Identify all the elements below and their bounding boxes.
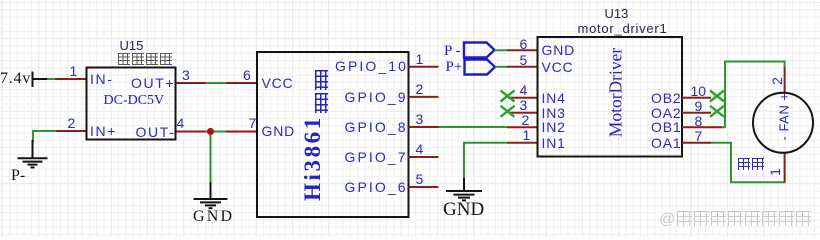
pin name GND U13: [542, 42, 576, 58]
pin number 6 U13: [520, 36, 528, 52]
value DC-DC5V: [104, 93, 165, 109]
pin number 9 U13: [695, 98, 703, 114]
pin name OA1: [651, 135, 681, 151]
pin stub Hi3861 GPIO_7 pin4: [409, 156, 439, 158]
wire IN1 to ground: [464, 143, 507, 178]
pin number 5 GPIO_6: [416, 171, 424, 187]
netflag P+ pentagon: [465, 60, 496, 75]
pin name IN3: [542, 105, 566, 121]
fan motor circle: [753, 93, 813, 153]
pin name GPIO_8: [345, 119, 408, 135]
pin stub Hi3861 GND pin7: [226, 131, 257, 133]
part name motor_driver1: [578, 21, 668, 36]
fan pin number 2 rotated: [768, 77, 784, 85]
wire junction drop to ground: [210, 132, 212, 183]
part name Hi3861 模组 rotated: [300, 109, 322, 201]
wire P- flag to GND pin: [495, 49, 508, 51]
pin stub U13 OA1 pin7: [682, 142, 711, 144]
no-connect X on IN4: [501, 91, 515, 102]
pin number 8 U13: [695, 113, 703, 129]
label 风扇: [738, 158, 764, 174]
pin stub U15 IN- pin1: [55, 78, 87, 80]
pin name IN4: [542, 90, 566, 106]
label 7.4v: [0, 70, 31, 88]
wire OUT- to GND net: [206, 131, 227, 133]
pin name VCC U13: [542, 59, 574, 75]
pin number 4 GPIO_7: [416, 141, 424, 157]
pin stub Hi3861 GPIO_6 pin5: [409, 186, 439, 188]
junction dot: [207, 128, 214, 135]
watermark: [659, 211, 811, 229]
label 组 (Hi3861 module): [315, 70, 328, 90]
pin name IN2: [542, 119, 566, 135]
fan text - FAN + rotated: [777, 93, 792, 141]
pin name OB2: [651, 90, 681, 106]
ground GND under U13: [446, 178, 482, 201]
wire P- corner to IN+: [33, 131, 56, 142]
pin stub Hi3861 GPIO_8 pin3: [409, 126, 439, 128]
pin number 4 U15: [177, 115, 185, 131]
label P - flag: [444, 43, 461, 60]
pin name IN1: [542, 135, 566, 151]
pin stub U13 VCC pin5: [507, 66, 537, 68]
pin number 1 U15: [70, 63, 78, 79]
pin number 2 U15: [68, 115, 76, 131]
Hi3861 module box: [257, 52, 409, 217]
pin name GPIO_9: [345, 89, 408, 105]
refdes U13: [605, 6, 629, 21]
regulator U15 box: [87, 68, 176, 140]
pin number 7 Hi3861: [249, 115, 257, 131]
label 稳压模块: [118, 53, 174, 69]
pin stub Hi3861 GPIO_10 pin1: [409, 66, 439, 68]
fan pin number 1 rotated: [767, 168, 783, 176]
pin stub U15 OUT- pin4: [176, 131, 206, 133]
pin number 1 U13: [523, 127, 531, 143]
pin stub U13 IN1 pin1: [507, 142, 537, 144]
pin stub Hi3861 VCC pin6: [226, 82, 257, 84]
wire OB1 to fan top: [722, 62, 785, 128]
wire 7.4v to IN-: [47, 78, 55, 80]
no-connect X on IN3: [501, 106, 515, 117]
pin number 6 Hi3861: [243, 67, 251, 83]
pin name OA2: [651, 105, 681, 121]
pin stub U13 IN2 pin2: [507, 126, 537, 128]
refdes U15: [120, 38, 144, 53]
wire P+ flag to VCC pin: [495, 66, 507, 68]
pin name GPIO_10: [335, 58, 408, 74]
label P+ flag: [446, 59, 463, 76]
pin stub U13 OB2 pin10: [682, 97, 711, 99]
pin number 7 U13: [695, 128, 703, 144]
part name MotorDriver rotated: [605, 46, 626, 138]
pin number 1 GPIO_10: [416, 51, 424, 67]
motor driver U13 box: [538, 37, 683, 157]
pin stub Hi3861 GPIO_9 pin2: [409, 96, 439, 98]
pin number 2 GPIO_9: [416, 81, 424, 97]
ground P-: [18, 140, 48, 167]
pin name OB1: [651, 119, 681, 135]
pin stub U15 IN+ pin2: [56, 130, 87, 132]
label GND middle: [193, 208, 234, 226]
pin stub U13 GND pin6: [507, 49, 537, 51]
netflag P- pentagon: [464, 43, 495, 58]
fan pin 1 stub bottom: [784, 153, 786, 182]
pin name GPIO_6: [345, 179, 408, 195]
pin name VCC Hi3861: [262, 75, 294, 91]
ground GND middle: [194, 182, 228, 208]
pin number 4 U13: [520, 82, 528, 98]
label P-: [11, 167, 25, 185]
pin number 5 U13: [520, 52, 528, 68]
pin number 3 U15: [182, 67, 190, 83]
pin name IN+: [90, 123, 117, 139]
pin name OUT+: [131, 75, 175, 91]
pin name GPIO_7: [345, 149, 408, 165]
pin number 10 U13: [691, 83, 707, 99]
pin stub U13 OB1 pin8: [682, 126, 722, 128]
pin number 3 GPIO_8: [416, 111, 424, 127]
no-connect X on OB2: [710, 91, 724, 102]
no-connect X on OA2: [710, 106, 724, 117]
port 7.4v bar and lead: [33, 72, 48, 88]
wire OA1 to fan bottom: [711, 143, 786, 183]
pin number 3 U13: [520, 97, 528, 113]
pin name GND Hi3861: [262, 123, 296, 139]
pin stub U13 OA2 pin9: [682, 112, 711, 114]
wire OUT+ to VCC: [206, 82, 227, 84]
pin number 2 U13: [522, 112, 530, 128]
pin name IN-: [90, 71, 113, 87]
label 模 (Hi3861 module): [315, 93, 328, 113]
fan pin 2 stub top: [784, 67, 786, 93]
wire GPIO_8 to IN2: [439, 126, 508, 128]
pin name OUT-: [136, 124, 176, 140]
label GND under U13: [443, 199, 484, 221]
pin stub U13 IN3 pin3: [508, 112, 537, 114]
pin stub U13 IN4 pin4: [508, 97, 537, 99]
pin stub U15 OUT+ pin3: [176, 82, 206, 84]
